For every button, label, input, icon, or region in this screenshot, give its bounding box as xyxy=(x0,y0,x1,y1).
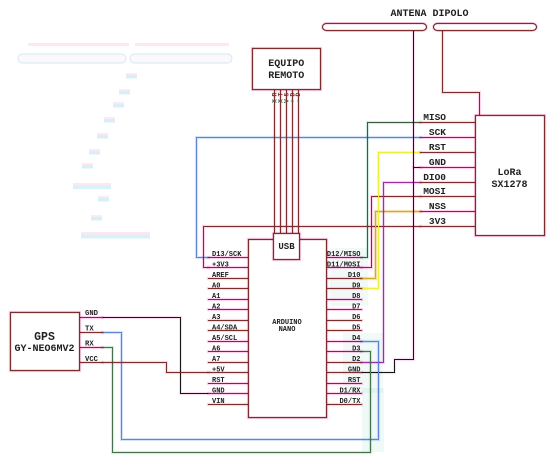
wire pin stub Arduino right D4 xyxy=(327,340,362,343)
svg-text:DIO0: DIO0 xyxy=(423,172,446,183)
wire pin stub Arduino left A1 xyxy=(209,298,249,301)
svg-text:REMOTO: REMOTO xyxy=(268,71,304,82)
wire pin stub LoRa MOSI xyxy=(421,195,476,198)
wire net RST (yellow): LoRa RST to Arduino D9 xyxy=(362,153,421,289)
wire pin stub Arduino left D13/SCK xyxy=(209,256,249,259)
svg-text:GND: GND xyxy=(348,366,361,374)
wire pin stub Arduino left GND xyxy=(209,392,249,395)
wire pin stub Arduino right D7 xyxy=(327,308,362,311)
wire pin stub Arduino left A4/SDA xyxy=(209,329,249,332)
svg-text:D7: D7 xyxy=(352,303,360,311)
wire net GND (black): antenna left element to LoRa GND and Arduino GND xyxy=(362,32,414,373)
wire pin stub Arduino left VIN xyxy=(209,403,249,406)
wire pin stub Arduino left A0 xyxy=(209,287,249,290)
svg-text:GND: GND xyxy=(212,387,225,395)
wire wire USB bundle 3: EQUIPO REMOTO to Arduino USB xyxy=(285,90,288,234)
wire pin stub Arduino left A5/SCL xyxy=(209,340,249,343)
svg-text:NSS: NSS xyxy=(429,201,446,212)
svg-text:+3V3: +3V3 xyxy=(212,261,229,269)
module EQUIPO REMOTO xyxy=(253,49,321,90)
svg-text:-: - xyxy=(295,99,302,103)
wire pin stub GPS RX xyxy=(79,346,103,349)
wire pin stub LoRa DIO0 xyxy=(421,181,476,184)
svg-text:D: D xyxy=(295,93,302,97)
wire net GPS VCC (dark red) to Arduino +5V xyxy=(103,363,209,373)
svg-text:D11/MOSI: D11/MOSI xyxy=(327,261,361,269)
svg-text:USB: USB xyxy=(278,242,295,252)
svg-text:RST: RST xyxy=(429,142,446,153)
wire pin stub Arduino left A7 xyxy=(209,361,249,364)
wire pin stub Arduino right D3 xyxy=(327,350,362,353)
svg-text:A1: A1 xyxy=(212,293,220,301)
svg-text:D8: D8 xyxy=(352,293,360,301)
antenna ANTENA DIPOLO right element xyxy=(434,24,537,31)
svg-text:A2: A2 xyxy=(212,303,220,311)
svg-text:D3: D3 xyxy=(352,345,360,353)
wire pin stub Arduino left A2 xyxy=(209,308,249,311)
svg-text:GND: GND xyxy=(429,157,446,168)
wire pin stub GPS GND xyxy=(79,316,103,319)
svg-text:A5/SCL: A5/SCL xyxy=(212,335,237,343)
svg-text:D5: D5 xyxy=(352,324,360,332)
svg-text:D13/SCK: D13/SCK xyxy=(212,251,242,259)
svg-text:VCC: VCC xyxy=(85,356,99,364)
wire pin stub Arduino left AREF xyxy=(209,277,249,280)
svg-text:D4: D4 xyxy=(352,335,360,343)
wire pin stub Arduino right RST xyxy=(327,382,362,385)
wire pin stub LoRa SCK xyxy=(421,136,476,139)
svg-text:AREF: AREF xyxy=(212,272,229,280)
svg-text:MISO: MISO xyxy=(423,112,446,123)
svg-text:A6: A6 xyxy=(212,345,220,353)
svg-text:D2: D2 xyxy=(352,356,360,364)
wire net MOSI (dark red): LoRa MOSI to Arduino D11/MOSI xyxy=(362,197,421,268)
wire pin stub Arduino right D6 xyxy=(327,319,362,322)
module LoRa SX1278 xyxy=(476,116,545,236)
wire pin stub GPS VCC xyxy=(79,361,103,364)
svg-text:D1/RX: D1/RX xyxy=(339,387,361,395)
wire wire USB bundle 1: EQUIPO REMOTO to Arduino USB xyxy=(273,90,276,234)
svg-text:EQUIPO: EQUIPO xyxy=(268,59,304,70)
svg-text:GPS: GPS xyxy=(34,331,55,344)
wire pin stub Arduino right D12/MISO xyxy=(327,256,362,259)
wire pin stub LoRa GND xyxy=(421,166,476,169)
wire net GPS RX (green) to Arduino D3 xyxy=(103,348,371,453)
wire pin stub Arduino right D9 xyxy=(327,287,362,290)
wire pin stub Arduino right D11/MOSI xyxy=(327,266,362,269)
svg-text:MOSI: MOSI xyxy=(423,186,446,197)
wire pin stub Arduino left +3V3 xyxy=(209,266,249,269)
svg-text:NANO: NANO xyxy=(279,326,296,334)
wire net 3V3 (dark red): LoRa 3V3 to Arduino +3V3 xyxy=(204,227,421,268)
wire net MISO (green): LoRa MISO to Arduino D12/MISO xyxy=(362,123,421,258)
wire pin stub Arduino left RST xyxy=(209,382,249,385)
svg-text:A4/SDA: A4/SDA xyxy=(212,324,238,332)
wire wire USB bundle 4: EQUIPO REMOTO to Arduino USB xyxy=(291,90,294,234)
wire pin stub Arduino right D1/RX xyxy=(327,392,362,395)
svg-text:A7: A7 xyxy=(212,356,220,364)
svg-text:A3: A3 xyxy=(212,314,220,322)
svg-text:SCK: SCK xyxy=(429,127,446,138)
wire pin stub Arduino left A6 xyxy=(209,350,249,353)
wire wire USB bundle 2: EQUIPO REMOTO to Arduino USB xyxy=(279,90,282,234)
wire pin stub Arduino right D10 xyxy=(327,277,362,280)
wire pin stub GPS TX xyxy=(79,331,103,334)
wire pin stub Arduino right D5 xyxy=(327,329,362,332)
wire pin stub LoRa NSS xyxy=(421,210,476,213)
svg-text:RX: RX xyxy=(85,341,94,349)
svg-text:D6: D6 xyxy=(352,314,360,322)
wire net DIO0 (magenta): LoRa DIO0 to Arduino D2 xyxy=(362,183,421,363)
svg-text:TX: TX xyxy=(85,325,94,333)
svg-text:ANTENA DIPOLO: ANTENA DIPOLO xyxy=(390,9,468,20)
wire net SCK (blue): LoRa SCK to Arduino D13/SCK xyxy=(197,138,421,258)
module GPS GY-NEO6MV2 xyxy=(11,313,80,371)
svg-text:SX1278: SX1278 xyxy=(491,180,527,191)
svg-text:LoRa: LoRa xyxy=(497,168,521,179)
wire net GPS TX (blue) to Arduino D4 xyxy=(103,333,379,440)
wire pin stub Arduino left A3 xyxy=(209,319,249,322)
USB connector block on Arduino xyxy=(274,234,300,260)
wire wire antenna right element to LoRa top (dark red) xyxy=(443,32,480,116)
svg-text:GY-NEO6MV2: GY-NEO6MV2 xyxy=(14,344,74,355)
svg-text:D9: D9 xyxy=(352,282,360,290)
wire pin stub Arduino left +5V xyxy=(209,371,249,374)
wire pin stub LoRa RST xyxy=(421,151,476,154)
wire wire USB bundle 5: EQUIPO REMOTO to Arduino USB xyxy=(297,90,300,234)
wire pin stub Arduino right D8 xyxy=(327,298,362,301)
svg-text:D10: D10 xyxy=(348,272,361,280)
wire pin stub LoRa MISO xyxy=(421,121,476,124)
svg-text:+5V: +5V xyxy=(212,366,225,374)
wire pin stub Arduino right GND xyxy=(327,371,362,374)
svg-text:RST: RST xyxy=(212,377,225,385)
wire wire LoRa GND stub junction to black net xyxy=(414,166,422,169)
wire net GPS GND (black) to Arduino GND xyxy=(103,318,209,394)
wire pin stub LoRa 3V3 xyxy=(421,225,476,228)
svg-text:VIN: VIN xyxy=(212,398,225,406)
svg-text:GND: GND xyxy=(85,310,99,318)
svg-text:D12/MISO: D12/MISO xyxy=(327,251,361,259)
wire net NSS (gold): LoRa NSS to Arduino D10 xyxy=(362,212,421,279)
svg-text:RST: RST xyxy=(348,377,361,385)
svg-text:D0/TX: D0/TX xyxy=(339,398,361,406)
module ARDUINO NANO xyxy=(249,240,327,418)
wire pin stub Arduino right D2 xyxy=(327,361,362,364)
svg-text:A0: A0 xyxy=(212,282,220,290)
svg-text:3V3: 3V3 xyxy=(429,216,446,227)
wire pin stub Arduino right D0/TX xyxy=(327,403,362,406)
antenna ANTENA DIPOLO left element xyxy=(323,24,427,31)
